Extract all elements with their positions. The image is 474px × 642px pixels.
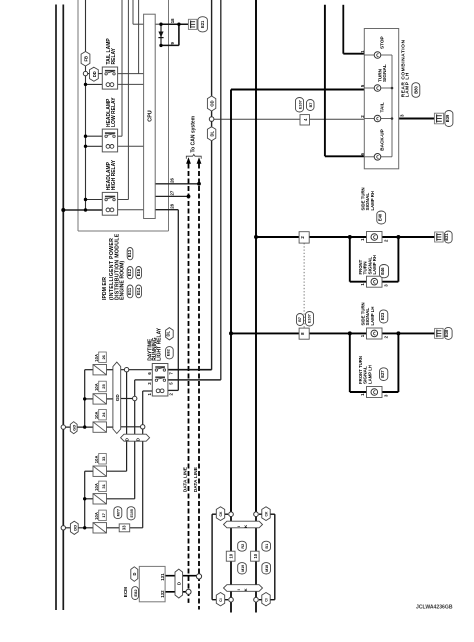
svg-text:B80: B80 — [413, 86, 418, 94]
svg-text:28: 28 — [169, 203, 174, 208]
svg-text:LAMP LH: LAMP LH — [370, 306, 375, 325]
svg-text:LIGHT RELAY: LIGHT RELAY — [157, 327, 163, 361]
svg-text:2: 2 — [384, 335, 389, 338]
svg-text:E13: E13 — [127, 249, 132, 257]
svg-text:3: 3 — [399, 114, 404, 117]
svg-text:DD: DD — [72, 525, 77, 531]
svg-text:D: D — [136, 438, 141, 441]
svg-text:E107: E107 — [299, 100, 303, 109]
svg-text:E82: E82 — [165, 348, 170, 356]
svg-text:GD: GD — [72, 425, 77, 431]
svg-text:10A: 10A — [94, 383, 99, 391]
svg-text:31: 31 — [101, 483, 106, 488]
svg-text:I: I — [236, 589, 241, 590]
svg-text:I: I — [236, 526, 241, 527]
svg-text:R2: R2 — [241, 544, 245, 549]
svg-text:D: D — [132, 572, 137, 575]
svg-text:E27: E27 — [380, 370, 385, 378]
svg-text:D: D — [177, 582, 182, 585]
svg-text:M77: M77 — [117, 509, 121, 516]
svg-text:DATA LINE: DATA LINE — [183, 466, 189, 492]
svg-text:E23: E23 — [380, 312, 385, 320]
svg-text:25: 25 — [101, 384, 106, 389]
svg-text:K: K — [243, 588, 248, 591]
svg-text:E21: E21 — [200, 20, 205, 28]
svg-text:CPU: CPU — [148, 110, 154, 121]
svg-text:E107: E107 — [307, 314, 311, 323]
svg-text:ECM: ECM — [123, 587, 128, 597]
svg-text:To CAN system: To CAN system — [191, 115, 197, 152]
svg-text:33: 33 — [101, 456, 106, 461]
svg-text:10A: 10A — [94, 483, 99, 491]
svg-text:E12: E12 — [127, 268, 132, 276]
svg-text:LAMP LH: LAMP LH — [405, 72, 411, 97]
svg-text:E11: E11 — [127, 287, 132, 295]
svg-text:B39: B39 — [445, 114, 450, 122]
svg-text:CK: CK — [219, 511, 223, 516]
svg-text:SIGNAL: SIGNAL — [382, 64, 387, 82]
svg-text:1: 1 — [360, 334, 365, 337]
svg-text:DL: DL — [210, 130, 215, 136]
svg-text:E38: E38 — [444, 329, 449, 337]
svg-text:E21: E21 — [444, 233, 449, 241]
svg-text:B7: B7 — [298, 317, 302, 322]
svg-text:E40: E40 — [377, 213, 382, 221]
svg-text:B7: B7 — [309, 103, 313, 108]
svg-text:2: 2 — [169, 393, 174, 396]
svg-text:BACK-UP: BACK-UP — [379, 129, 384, 151]
svg-text:E14: E14 — [136, 287, 141, 295]
svg-text:HIGH RELAY: HIGH RELAY — [111, 159, 117, 190]
svg-text:E82: E82 — [133, 589, 138, 597]
svg-text:10: 10 — [253, 553, 258, 558]
svg-text:132: 132 — [160, 590, 165, 598]
svg-text:131: 131 — [160, 573, 165, 581]
svg-text:RELAY: RELAY — [111, 47, 117, 64]
svg-text:LAMP RH: LAMP RH — [372, 255, 377, 275]
svg-text:9: 9 — [170, 42, 175, 45]
svg-text:DL: DL — [165, 330, 170, 336]
svg-text:E105: E105 — [130, 509, 134, 517]
svg-text:7: 7 — [169, 372, 174, 375]
svg-text:33: 33 — [122, 525, 127, 530]
svg-text:GD: GD — [115, 394, 120, 402]
svg-text:CI: CI — [265, 598, 269, 601]
svg-text:ENGINE ROOM): ENGINE ROOM) — [119, 261, 125, 300]
svg-text:OD: OD — [210, 100, 215, 106]
svg-text:27: 27 — [169, 190, 174, 195]
svg-text:LAMP LH: LAMP LH — [367, 365, 372, 384]
svg-text:CK: CK — [265, 511, 269, 516]
svg-text:5: 5 — [169, 382, 174, 385]
svg-text:26: 26 — [169, 178, 174, 183]
svg-text:3: 3 — [384, 394, 389, 397]
svg-text:10: 10 — [229, 553, 234, 558]
svg-text:JCLWA4236GB: JCLWA4236GB — [416, 605, 453, 611]
svg-text:FB: FB — [84, 56, 89, 62]
svg-text:M19: M19 — [241, 565, 245, 572]
svg-text:24: 24 — [101, 412, 106, 417]
svg-text:CI: CI — [219, 598, 223, 601]
svg-text:E16: E16 — [136, 268, 141, 276]
svg-text:M18: M18 — [265, 565, 269, 572]
svg-text:IPDM E/R: IPDM E/R — [102, 277, 108, 300]
svg-text:STOP: STOP — [379, 36, 384, 49]
svg-text:26: 26 — [101, 354, 106, 359]
svg-text:10A: 10A — [94, 354, 99, 362]
svg-text:18: 18 — [170, 18, 175, 23]
svg-text:10A: 10A — [94, 411, 99, 419]
svg-text:1: 1 — [360, 283, 365, 286]
svg-text:2: 2 — [384, 239, 389, 242]
svg-text:1: 1 — [360, 238, 365, 241]
svg-text:10A: 10A — [94, 456, 99, 464]
svg-text:B1: B1 — [265, 544, 269, 549]
svg-text:TAIL: TAIL — [379, 102, 384, 112]
svg-text:D: D — [125, 438, 130, 441]
svg-text:DATA LINE: DATA LINE — [193, 466, 199, 492]
svg-text:LAMP RH: LAMP RH — [370, 191, 375, 211]
svg-text:3: 3 — [384, 284, 389, 287]
svg-text:3: 3 — [147, 382, 152, 385]
svg-text:1: 1 — [147, 393, 152, 396]
svg-text:DD: DD — [92, 71, 97, 77]
svg-text:10A: 10A — [94, 512, 99, 520]
svg-text:1: 1 — [360, 393, 365, 396]
svg-text:E46: E46 — [380, 267, 385, 275]
svg-text:LOW RELAY: LOW RELAY — [111, 97, 117, 127]
svg-text:17: 17 — [101, 512, 106, 517]
svg-text:6: 6 — [147, 372, 152, 375]
svg-text:K: K — [243, 525, 248, 528]
